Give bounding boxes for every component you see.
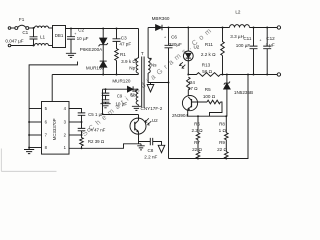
wire fuse to node L1 (29, 27, 35, 29)
wire pin 7 stub (29, 134, 41, 136)
node opto LED cathode junction (187, 74, 189, 76)
svg-text:C11: C11 (243, 36, 252, 41)
node zener junction (226, 74, 228, 76)
optocoupler U2 LED (187, 28, 189, 52)
node C11 bottom junction (253, 74, 255, 76)
capacitor C8 (139, 138, 162, 145)
capacitor C4 (78, 122, 86, 135)
svg-text:+: + (74, 32, 76, 36)
resistor R9 (225, 152, 229, 159)
zener diode D6 1N5235B (226, 75, 228, 84)
node C12 bottom junction (266, 74, 268, 76)
svg-text:R2 39 Ω: R2 39 Ω (88, 139, 105, 144)
node snubber rail junction (116, 28, 118, 30)
transformer phasing dot Nb (134, 90, 136, 92)
wire pin 1 rail (69, 144, 141, 149)
svg-text:22 Ω: 22 Ω (217, 147, 227, 152)
svg-text:2.2 Ω: 2.2 Ω (191, 128, 203, 133)
ground C2 (66, 53, 76, 57)
diode D5 MBR360 (148, 27, 156, 29)
resistor R4 (187, 77, 191, 96)
wire pin 2 stub (69, 134, 82, 136)
svg-text:MUR120: MUR120 (112, 78, 131, 83)
node C1 top junction (33, 27, 35, 29)
wire Nb bottom (137, 105, 139, 107)
svg-text:3.3 µH: 3.3 µH (230, 34, 244, 39)
terminal J1 top input (8, 27, 11, 30)
svg-text:R7: R7 (194, 140, 200, 145)
wire L1 to DB1 top (49, 27, 53, 29)
wire pin 6 stub (29, 121, 41, 123)
wire Ns top to rail (147, 28, 149, 59)
wire emitter bus (188, 115, 227, 117)
inductor L1 common-mode choke top winding (35, 26, 49, 28)
resistor R13 in output return (188, 73, 277, 77)
wire pin 8 stub (29, 147, 41, 149)
transformer aux winding Nb (136, 90, 138, 105)
svg-text:F1: F1 (19, 17, 25, 22)
transistor Q1 2N3904 (182, 96, 197, 111)
svg-text:L2: L2 (235, 9, 241, 14)
node R2 bottom junction (81, 147, 83, 149)
wire IC drain to drain bus (51, 75, 53, 102)
node R9 bottom junction (225, 158, 227, 160)
transformer T primary winding Np (136, 58, 138, 73)
svg-text:+: + (164, 36, 166, 40)
svg-text:R6: R6 (194, 122, 200, 127)
ground arrow C8 (158, 145, 165, 152)
capacitor C12 (263, 28, 271, 75)
wire Ns bottom to common (148, 73, 168, 83)
inductor L2 (230, 25, 250, 28)
svg-text:R11: R11 (205, 42, 214, 47)
resistor R11 (221, 28, 225, 75)
ground primary logic (140, 144, 142, 146)
svg-text:3.9 k Ω: 3.9 k Ω (121, 59, 136, 64)
svg-text:P6KE200A: P6KE200A (80, 47, 103, 52)
ground C7 (100, 104, 110, 108)
ground arrow secondary common (150, 83, 152, 85)
capacitor C5 (78, 113, 86, 122)
node C1 bottom junction (33, 45, 35, 47)
transformer phasing dot Ns (150, 58, 152, 60)
svg-text:C12: C12 (266, 36, 275, 41)
svg-text:C9: C9 (117, 93, 123, 98)
node R11 rail junction (222, 27, 224, 29)
wire HV rail (66, 28, 139, 30)
wire collector to aux (103, 89, 139, 114)
node R7 bottom junction (197, 158, 199, 160)
svg-text:0.047 µF: 0.047 µF (5, 39, 23, 44)
wire pin 3 stub (69, 121, 82, 123)
svg-text:1 Ω: 1 Ω (219, 128, 227, 133)
node C6 rail junction (168, 27, 170, 29)
wire bottom sense rail (169, 75, 249, 159)
resistor R8 (225, 116, 229, 152)
wire secondary rail right (250, 27, 278, 29)
svg-text:U2: U2 (193, 45, 199, 50)
svg-text:47 pF: 47 pF (119, 41, 131, 46)
transformer phasing dot Np (134, 59, 136, 61)
svg-text:MUR160: MUR160 (86, 66, 105, 71)
svg-text:C2: C2 (78, 28, 84, 33)
optocoupler U2 light arrows in (145, 118, 151, 125)
node aux cap junction (105, 88, 107, 90)
svg-text:R5: R5 (205, 87, 211, 92)
svg-text:C1: C1 (22, 30, 28, 35)
svg-text:C5 1 µF: C5 1 µF (88, 112, 104, 117)
svg-text:47 Ω: 47 Ω (188, 86, 198, 91)
node pin2 ladder junction (81, 134, 83, 136)
node R8 top junction (225, 115, 227, 117)
svg-text:2.2 nF: 2.2 nF (144, 154, 157, 159)
node pin 7 bus junction (28, 134, 30, 136)
svg-text:2.2 k Ω: 2.2 k Ω (201, 52, 216, 57)
svg-text:C6: C6 (171, 35, 177, 40)
svg-text:U2: U2 (152, 118, 158, 123)
TVS diode D2 P6KE200A (102, 29, 104, 39)
node clamp drain junction (102, 74, 104, 76)
node clamp rail junction (102, 28, 104, 30)
svg-text:CNY17F-2: CNY17F-2 (141, 106, 163, 111)
capacitor C9 aux (102, 89, 110, 100)
wire drain bus (52, 74, 138, 76)
bridge rectifier DB1 (53, 26, 66, 48)
transformer core (142, 57, 144, 108)
svg-text:T: T (141, 51, 144, 56)
wire rail to Np top (138, 29, 140, 59)
node pin3 ladder junction (81, 121, 83, 123)
resistor R2 (80, 135, 84, 148)
resistor R7 (196, 152, 200, 159)
node opto LED rail junction (187, 27, 189, 29)
wire input bottom (11, 45, 35, 47)
diode D3 MUR160 (100, 60, 107, 62)
ground Nb (132, 106, 141, 110)
transformer secondary winding Ns (148, 58, 150, 73)
capacitor C11 (250, 28, 258, 75)
svg-text:C3: C3 (121, 36, 127, 41)
svg-text:10 µF: 10 µF (115, 101, 127, 106)
diode D4 MUR120 (103, 88, 128, 90)
svg-text:1 µF: 1 µF (265, 43, 274, 48)
svg-text:R13: R13 (202, 62, 211, 67)
capacitor C1 (30, 28, 38, 46)
svg-text:MC33370P: MC33370P (52, 118, 57, 140)
svg-text:22 Ω: 22 Ω (192, 147, 202, 152)
wire pin 4 stub (69, 109, 82, 113)
wire pin 5 stub (29, 108, 41, 110)
optocoupler U2 phototransistor (130, 118, 146, 134)
ground IC left (24, 150, 34, 154)
svg-text:R1: R1 (120, 52, 126, 57)
border mark bottom-left (1, 149, 56, 172)
svg-text:1N5235B: 1N5235B (234, 90, 253, 95)
terminal J2 bottom input (8, 44, 11, 47)
node pin 6 bus junction (28, 121, 30, 123)
svg-text:R8: R8 (219, 122, 225, 127)
svg-text:C4 47 nF: C4 47 nF (87, 128, 105, 133)
node C12 rail junction (266, 27, 268, 29)
wire input top to fuse (11, 27, 15, 29)
capacitor C6 (165, 28, 173, 159)
capacitor C7 aux 10uF (102, 100, 110, 104)
node pin 8 bus junction (28, 147, 30, 149)
resistor R5 (207, 100, 222, 116)
svg-text:100 Ω: 100 Ω (203, 94, 216, 99)
node C11 rail junction (253, 27, 255, 29)
node snubber drain junction (116, 74, 118, 76)
svg-text:100 µF: 100 µF (236, 43, 251, 48)
IC U1 MC33370P (42, 102, 70, 155)
wire L1 to DB1 bottom (49, 45, 53, 47)
inductor L1 bottom winding (35, 43, 49, 45)
node secondary common junction (168, 82, 170, 84)
svg-text:C8: C8 (147, 148, 153, 153)
terminal output positive (277, 26, 280, 29)
wire secondary rail left (162, 27, 230, 29)
svg-text:Ns: Ns (151, 62, 157, 67)
svg-text:2N3904: 2N3904 (172, 113, 189, 118)
node R11 bottom junction (222, 74, 224, 76)
svg-text:Np: Np (129, 65, 135, 70)
capacitor C3 (113, 29, 121, 42)
svg-text:MBR360: MBR360 (152, 16, 170, 21)
svg-text:R4: R4 (189, 80, 195, 85)
svg-text:Nb: Nb (131, 92, 137, 97)
node R6 top junction (197, 115, 199, 117)
wire left ground bus up to hook (29, 62, 77, 150)
terminal output negative (277, 73, 280, 76)
optocoupler U2 LED light arrows (180, 62, 186, 68)
node C2 rail junction (70, 28, 72, 30)
svg-text:R9: R9 (219, 140, 225, 145)
resistor R1 (115, 41, 119, 74)
svg-text:10 µF: 10 µF (77, 36, 89, 41)
svg-text:DB1: DB1 (55, 33, 64, 38)
svg-text:+: + (259, 39, 261, 43)
node sense riser junction (247, 74, 249, 76)
fuse F1 (15, 27, 18, 30)
svg-text:330µF: 330µF (169, 42, 182, 47)
resistor R6 (196, 116, 200, 152)
svg-text:L1: L1 (40, 34, 46, 39)
capacitor C2 (67, 29, 75, 54)
svg-text:56 Ω: 56 Ω (202, 69, 212, 74)
